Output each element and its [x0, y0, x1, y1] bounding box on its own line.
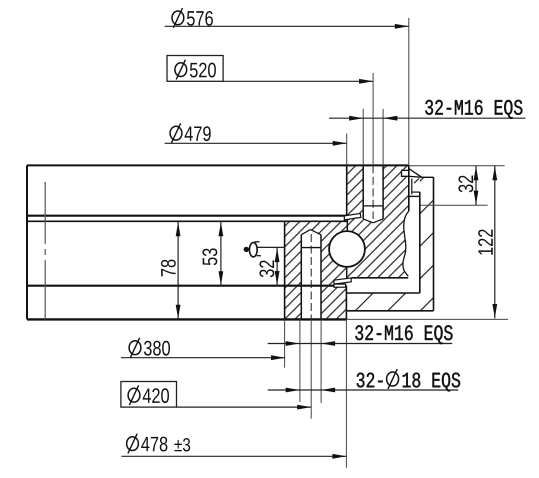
dimension Ø420	[121, 382, 177, 408]
dimension 32 right	[475, 165, 477, 205]
seal diagonal tick	[414, 178, 419, 183]
Ø576 extension line	[408, 18, 410, 165]
inner ring bore edge	[284, 221, 286, 319]
dimension 32-M16 EQS top	[329, 117, 525, 119]
seam upper line	[27, 215, 347, 217]
bottom bolt extension lines	[299, 319, 301, 402]
bottom bolt hole edges	[300, 235, 302, 320]
bracket foot bottom line	[346, 310, 433, 312]
ball	[329, 231, 365, 267]
outer ring bottom face	[352, 277, 409, 279]
bottom bolt hole white punch	[301, 230, 321, 320]
dimension Ø520	[167, 56, 223, 82]
dimension Ø478±3	[122, 455, 347, 457]
axis centerline (dash-dot)	[44, 182, 46, 319]
top bolt hole M16 white punch	[363, 165, 383, 222]
bracket top edge	[422, 176, 434, 178]
dimension 32-Ø18 EQS	[268, 389, 459, 391]
seal lip line	[411, 179, 413, 195]
bracket left edge	[419, 192, 421, 293]
bottom bolt centerline dashed	[310, 234, 312, 319]
dimension Ø380	[121, 357, 285, 359]
dimension 32 left	[276, 247, 278, 285]
top bolt hole edges	[362, 165, 364, 219]
bottom extension line	[346, 318, 508, 320]
top bolt extension lines	[362, 109, 364, 166]
ring split above ball	[346, 217, 348, 232]
top bolt centerline dashed	[372, 165, 374, 219]
left edge line	[26, 165, 28, 319]
bracket right edge	[433, 177, 435, 310]
dimension Ø479	[165, 142, 347, 144]
top surface line	[27, 164, 409, 166]
seam lower line / ring top face	[27, 220, 348, 222]
top surface extension line	[409, 165, 505, 167]
outer ring section (hatched, upper right)	[347, 165, 409, 277]
dimension 122	[494, 165, 496, 318]
right step extension line	[420, 204, 488, 206]
seal retainer bracket section (hatched, sparse)	[346, 177, 433, 310]
bottom edge line	[27, 318, 346, 320]
dimension 32-M16 EQS bottom	[268, 343, 453, 345]
top seal flag	[402, 170, 409, 176]
grease nipple	[244, 242, 261, 257]
grease leader line	[257, 246, 284, 248]
seal slot top line	[409, 195, 420, 197]
dimension 53	[220, 222, 222, 286]
outer ring bore edge	[346, 165, 348, 215]
bracket foot top line	[346, 292, 419, 294]
mid face line	[27, 285, 346, 287]
seal slot notch line	[412, 191, 420, 193]
inner ring right edge lower	[345, 286, 347, 320]
relief groove wavy edge	[403, 211, 409, 276]
Ø479 extension line	[346, 134, 348, 166]
dimension Ø576	[165, 25, 409, 27]
dimension 78	[177, 222, 179, 319]
outer ring right edge top	[408, 165, 410, 211]
upper raceway seal strip	[344, 213, 361, 220]
inner ring section (hatched, lower left)	[285, 221, 347, 319]
lower raceway seal strip	[334, 278, 351, 284]
ring split below ball	[346, 267, 348, 279]
